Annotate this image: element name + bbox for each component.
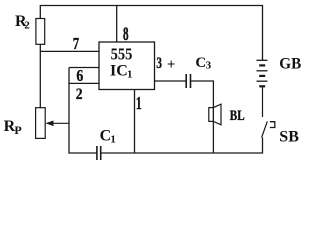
wire battery to switch — [262, 86, 264, 117]
capacitor C1 — [97, 146, 101, 160]
svg-text:6: 6 — [76, 67, 83, 85]
speaker BL — [209, 104, 221, 125]
svg-text:GB: GB — [279, 55, 301, 72]
wire C3 to speaker — [191, 81, 213, 153]
svg-text:BL: BL — [230, 106, 245, 123]
svg-text:3: 3 — [156, 54, 162, 71]
svg-text:1: 1 — [110, 134, 116, 146]
svg-text:SB: SB — [279, 128, 299, 145]
switch SB blade — [262, 122, 268, 138]
svg-text:2: 2 — [24, 20, 30, 32]
wire pin 3 — [155, 80, 186, 82]
wire bottom rail left — [69, 68, 96, 154]
wire top rail — [40, 6, 262, 61]
svg-text:8: 8 — [123, 24, 129, 45]
svg-text:1: 1 — [127, 69, 133, 81]
svg-text:IC: IC — [110, 63, 128, 80]
wire pin 6 — [69, 67, 99, 69]
svg-text:1: 1 — [136, 95, 142, 114]
svg-text:555: 555 — [111, 45, 133, 63]
wire pin 2 — [69, 82, 99, 84]
battery GB — [257, 60, 268, 86]
wire pin 1 — [134, 90, 136, 154]
wire bottom rail right — [101, 138, 262, 154]
wire pin 7 — [40, 50, 99, 52]
wire pin 8 — [116, 6, 118, 43]
switch SB actuator bracket — [270, 122, 275, 128]
wire left vertical R2 to Rp — [39, 44, 41, 107]
svg-text:P: P — [14, 123, 21, 137]
svg-text:7: 7 — [73, 36, 80, 54]
resistor R2 — [36, 19, 45, 45]
potentiometer Rp body — [36, 108, 46, 139]
svg-text:2: 2 — [76, 86, 83, 103]
svg-text:+: + — [167, 57, 176, 73]
svg-text:3: 3 — [206, 59, 212, 71]
capacitor C3 — [186, 74, 190, 88]
potentiometer Rp wiper arrow — [45, 121, 69, 127]
op-amp U1: 555 IC box — [99, 42, 155, 90]
